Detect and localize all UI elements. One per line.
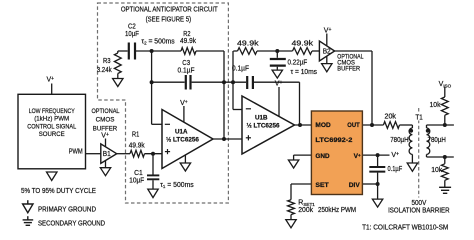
svg-text:BUFFER: BUFFER bbox=[93, 125, 117, 132]
svg-text:½ LTC6256: ½ LTC6256 bbox=[247, 121, 280, 129]
svg-text:SOURCE: SOURCE bbox=[39, 131, 65, 138]
svg-text:V+: V+ bbox=[391, 152, 399, 160]
svg-text:0.1µF: 0.1µF bbox=[178, 68, 195, 75]
svg-text:BUFFER: BUFFER bbox=[337, 65, 360, 72]
svg-text:C1: C1 bbox=[134, 170, 143, 177]
svg-text:C3: C3 bbox=[182, 60, 190, 67]
svg-text:LTC6992-2: LTC6992-2 bbox=[315, 137, 352, 144]
svg-text:20k: 20k bbox=[385, 114, 397, 121]
svg-text:B1: B1 bbox=[103, 151, 111, 158]
svg-text:τ1 = 500ms: τ1 = 500ms bbox=[160, 182, 194, 189]
svg-text:0.1µF: 0.1µF bbox=[388, 166, 403, 173]
svg-text:250kHz PWM: 250kHz PWM bbox=[318, 207, 356, 214]
svg-text:B2: B2 bbox=[323, 49, 331, 56]
svg-text:49.9k: 49.9k bbox=[129, 142, 145, 149]
svg-text:CONTROL SIGNAL: CONTROL SIGNAL bbox=[27, 123, 76, 130]
svg-text:U1A: U1A bbox=[175, 128, 188, 135]
svg-text:10µF: 10µF bbox=[125, 31, 139, 38]
svg-text:RSET1: RSET1 bbox=[298, 200, 315, 207]
svg-text:T1: COILCRAFT WB1010-SM: T1: COILCRAFT WB1010-SM bbox=[362, 225, 448, 232]
svg-text:10k: 10k bbox=[431, 167, 442, 174]
svg-text:0.22µF: 0.22µF bbox=[288, 60, 308, 67]
svg-text:780µH: 780µH bbox=[428, 137, 446, 144]
svg-text:200k: 200k bbox=[298, 207, 313, 214]
svg-text:OPTIONAL: OPTIONAL bbox=[92, 108, 120, 115]
svg-text:CMOS: CMOS bbox=[96, 117, 115, 124]
svg-text:SET: SET bbox=[315, 182, 328, 189]
svg-text:VISO: VISO bbox=[439, 81, 452, 88]
svg-text:49.9k: 49.9k bbox=[237, 40, 259, 47]
svg-text:V+: V+ bbox=[47, 76, 55, 84]
svg-text:ISOLATION BARRIER: ISOLATION BARRIER bbox=[388, 207, 450, 214]
svg-text:R1: R1 bbox=[132, 132, 139, 139]
svg-text:GND: GND bbox=[315, 153, 329, 160]
svg-text:(SEE FIGURE 5): (SEE FIGURE 5) bbox=[146, 17, 192, 24]
svg-text:DIV: DIV bbox=[349, 182, 361, 189]
svg-text:½ LTC6256: ½ LTC6256 bbox=[166, 136, 199, 144]
svg-text:10µF: 10µF bbox=[129, 178, 144, 185]
svg-text:R3: R3 bbox=[103, 58, 111, 65]
svg-text:U1B: U1B bbox=[255, 114, 268, 121]
svg-text:0.1µF: 0.1µF bbox=[232, 66, 249, 73]
svg-text:3.24k: 3.24k bbox=[97, 67, 112, 74]
svg-text:10k: 10k bbox=[430, 102, 441, 109]
svg-text:V+: V+ bbox=[275, 80, 283, 88]
svg-text:τ = 10ms: τ = 10ms bbox=[291, 69, 318, 76]
svg-text:SECONDARY GROUND: SECONDARY GROUND bbox=[38, 220, 105, 227]
svg-text:49.9k: 49.9k bbox=[292, 40, 314, 47]
svg-text:V+: V+ bbox=[101, 132, 109, 140]
svg-text:PRIMARY GROUND: PRIMARY GROUND bbox=[38, 206, 96, 213]
svg-text:PWM: PWM bbox=[69, 148, 83, 155]
svg-text:OPTIONAL ANTICIPATOR CIRCUIT: OPTIONAL ANTICIPATOR CIRCUIT bbox=[121, 7, 218, 14]
svg-text:OUT: OUT bbox=[347, 122, 359, 129]
svg-text:(1kHz) PWM: (1kHz) PWM bbox=[34, 116, 69, 123]
svg-text:τ2 = 500ms: τ2 = 500ms bbox=[141, 38, 175, 45]
svg-text:500V: 500V bbox=[412, 200, 427, 207]
svg-text:V+: V+ bbox=[180, 99, 188, 107]
svg-text:MOD: MOD bbox=[315, 122, 331, 129]
svg-text:5% TO 95% DUTY CYCLE: 5% TO 95% DUTY CYCLE bbox=[21, 188, 96, 195]
svg-text:780µH: 780µH bbox=[390, 137, 408, 144]
svg-text:T1: T1 bbox=[415, 114, 422, 121]
svg-text:49.9k: 49.9k bbox=[180, 38, 196, 45]
svg-text:LOW FREQUENCY: LOW FREQUENCY bbox=[29, 108, 75, 115]
svg-text:C2: C2 bbox=[128, 24, 136, 31]
svg-text:V+: V+ bbox=[324, 27, 332, 35]
